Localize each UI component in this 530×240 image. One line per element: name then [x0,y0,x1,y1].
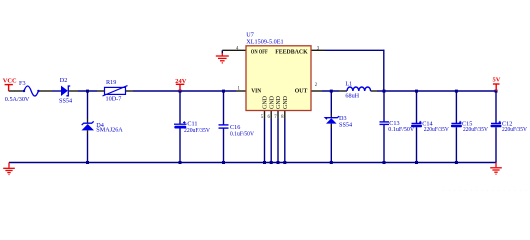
svg-text:GND: GND [283,95,289,109]
svg-text:OUT: OUT [295,87,308,94]
svg-text:D2: D2 [60,77,68,84]
svg-text:0.5A/30V: 0.5A/30V [5,96,30,103]
svg-text:SMAJ26A: SMAJ26A [96,126,123,133]
svg-text:7: 7 [274,115,277,120]
svg-text:F3: F3 [19,80,26,87]
svg-text:SS54: SS54 [59,98,72,105]
svg-text:ON OFF: ON OFF [251,49,268,56]
svg-text:VIN: VIN [251,87,261,94]
svg-text:8: 8 [281,115,284,120]
svg-text:XL1509-5.0E1: XL1509-5.0E1 [246,38,283,45]
svg-text:GND: GND [276,95,282,109]
svg-text:220uF/35V: 220uF/35V [424,126,449,133]
svg-text:0.1uF/50V: 0.1uF/50V [388,126,415,133]
svg-text:R19: R19 [106,79,116,86]
svg-text:68uH: 68uH [345,92,359,99]
svg-text:. . . . . . . . . . . . . . .: . . . . . . . . . . . . . . . . . [443,188,530,193]
svg-text:6: 6 [268,115,271,120]
svg-text:SS54: SS54 [339,121,352,128]
svg-text:L1: L1 [345,81,352,88]
svg-text:220uF/35V: 220uF/35V [502,126,527,133]
svg-text:VCC: VCC [3,78,17,85]
svg-text:0.1uF/50V: 0.1uF/50V [230,130,254,137]
svg-text:GND: GND [269,95,275,109]
svg-text:220uF/35V: 220uF/35V [463,126,488,133]
svg-text:220uF/35V: 220uF/35V [184,127,210,134]
svg-text:2: 2 [315,83,318,88]
svg-text:5: 5 [261,115,264,120]
svg-text:24V: 24V [175,78,186,85]
svg-text:10D-7: 10D-7 [106,95,122,102]
svg-text:5V: 5V [493,77,501,84]
svg-text:FEEDBACK: FEEDBACK [275,49,308,56]
svg-text:GND: GND [263,95,269,109]
